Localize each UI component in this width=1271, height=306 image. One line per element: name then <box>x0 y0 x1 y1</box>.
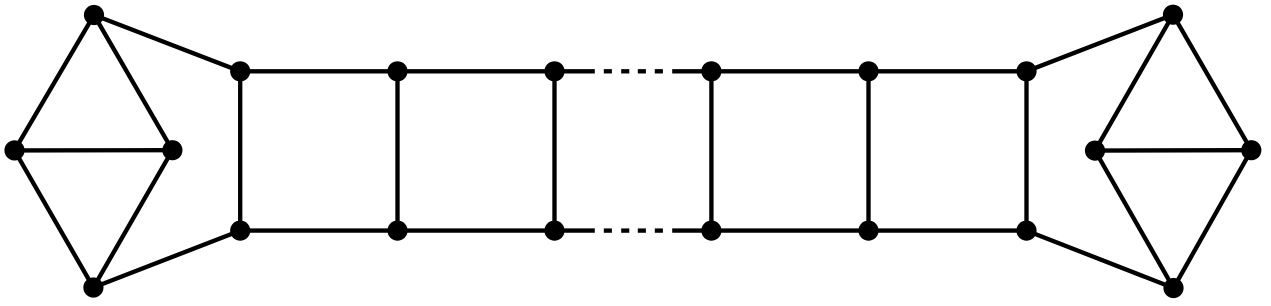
wire rung T1-B1 <box>238 71 242 230</box>
wire T4 stub solid <box>672 69 711 73</box>
node B2 ladder bottom 2 <box>387 221 407 241</box>
node A1 left diamond top <box>84 5 104 25</box>
wire A2-A4 (left diamond left to bottom) <box>15 150 94 287</box>
wire C2-C4 (right diamond left to bottom) <box>1095 151 1174 288</box>
wire T6-C1 (ladder to right diamond top) <box>1027 15 1174 72</box>
wire rung T3-B3 <box>552 71 556 230</box>
wire rung T4-B4 <box>709 71 713 230</box>
wire T4-T5 top rail <box>711 69 868 73</box>
wire C3-C4 (right diamond right to bottom) <box>1174 150 1252 288</box>
wire T2-T3 top rail <box>398 69 555 73</box>
wire B4 stub solid <box>672 228 711 232</box>
wire bottom dash 1 <box>604 228 612 232</box>
wire A1-T1 (left diamond top to ladder) <box>94 15 240 71</box>
wire top dash 4 <box>655 69 663 73</box>
wire top dash 1 <box>604 69 612 73</box>
wire bottom dash 2 <box>621 228 629 232</box>
wire B3 stub solid <box>555 228 595 232</box>
node C3 right diamond right <box>1241 140 1261 160</box>
node C1 right diamond top <box>1163 5 1183 25</box>
node T5 ladder top 5 <box>858 61 878 81</box>
node C4 right diamond bottom <box>1163 278 1183 298</box>
node A4 left diamond bottom <box>83 277 103 297</box>
wire T3 stub solid <box>555 69 595 73</box>
wire B1-B2 bottom rail <box>240 228 397 232</box>
node T3 ladder top 3 <box>544 61 564 81</box>
wire B4-B5 bottom rail <box>711 228 868 232</box>
wire T1-T2 top rail <box>240 69 397 73</box>
node T6 ladder top 6 <box>1016 61 1036 81</box>
wire bottom dash 4 <box>655 228 663 232</box>
node B1 ladder bottom 1 <box>230 221 250 241</box>
wire bottom dash 3 <box>638 228 646 232</box>
node C2 right diamond left <box>1085 141 1105 161</box>
node T4 ladder top 4 <box>701 61 721 81</box>
wire B6-C4 (ladder to right diamond bottom) <box>1027 231 1174 288</box>
node A3 left diamond right <box>162 140 182 160</box>
wire C1-C2 (right diamond top to left) <box>1095 15 1173 151</box>
node T1 ladder top 1 <box>230 61 250 81</box>
wire top dash 3 <box>638 69 646 73</box>
wire A4-B1 (left diamond bottom to ladder) <box>93 231 240 288</box>
wire B2-B3 bottom rail <box>398 228 555 232</box>
node A2 left diamond left <box>4 140 24 160</box>
wire A1-A2 (left diamond top to left) <box>15 15 95 150</box>
wire top dash 2 <box>621 69 629 73</box>
node B4 ladder bottom 4 <box>701 221 721 241</box>
wire A1-A3 (left diamond top to right) <box>94 15 172 150</box>
node B3 ladder bottom 3 <box>544 221 564 241</box>
wire rung T6-B6 <box>1024 71 1028 230</box>
wire rung T5-B5 <box>866 71 870 230</box>
wire C2-C3 (right diamond horizontal) <box>1095 148 1251 153</box>
wire T5-T6 top rail <box>869 69 1027 73</box>
wire rung T2-B2 <box>395 71 399 230</box>
wire A3-A4 (left diamond right to bottom) <box>93 150 172 287</box>
wire B5-B6 bottom rail <box>869 228 1027 232</box>
node B6 ladder bottom 6 <box>1016 221 1036 241</box>
wire A2-A3 (left diamond horizontal) <box>15 148 173 153</box>
wire C1-C3 (right diamond top to right) <box>1173 15 1251 151</box>
node B5 ladder bottom 5 <box>858 221 878 241</box>
node T2 ladder top 2 <box>387 61 407 81</box>
